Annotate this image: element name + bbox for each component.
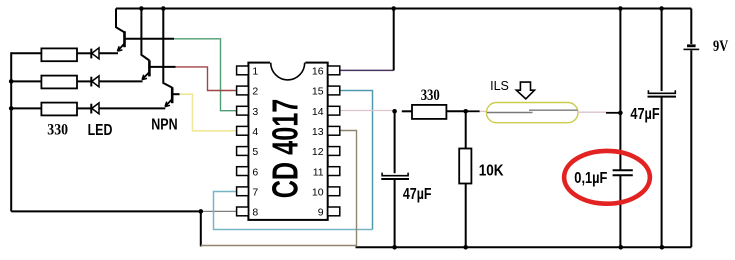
wire pale pink into capsule (480, 110, 487, 112)
node 0.1uF rail (618, 6, 623, 11)
svg-text:9V: 9V (713, 38, 729, 55)
node 10K ground (463, 245, 468, 250)
wire clock node to 330 (402, 110, 412, 112)
wire pin8 junction down to bottom rail (200, 211, 202, 246)
node C1 ground (392, 245, 397, 250)
resistor R4 330 (412, 105, 446, 119)
pin 1 box (237, 66, 249, 75)
wire green Q1 base to pin3 (174, 39, 237, 111)
svg-text:47µF: 47µF (403, 186, 432, 203)
pin 5 box (237, 147, 249, 156)
wire row1 mid (77, 52, 91, 54)
node pin8 junction (199, 209, 204, 214)
svg-text:330: 330 (47, 122, 68, 139)
svg-text:CD 4017: CD 4017 (265, 99, 306, 199)
capacitor C2 0.1uF (613, 170, 633, 175)
pin 10 box (328, 187, 340, 196)
pin 14 box (328, 106, 340, 115)
node ILS junction (463, 109, 468, 114)
wire 0.1uF vertical top (619, 9, 621, 171)
svg-text:4: 4 (252, 126, 258, 138)
ILS reed switch capsule (486, 103, 578, 123)
transistor Q3 (163, 9, 179, 107)
wire pin8 ground horizontal (11, 210, 201, 212)
node pin14 junction (392, 109, 397, 114)
wire ILS node down to 10K (465, 111, 467, 148)
wire purple pin16 VDD (340, 69, 394, 71)
wire row2 left (11, 80, 41, 82)
resistor R3 330 (41, 103, 77, 116)
pin 15 box (328, 86, 340, 95)
pin 13 box (328, 126, 340, 135)
wire row2 mid (77, 80, 91, 82)
wire row3 left (11, 107, 41, 109)
ILS down arrow (516, 82, 534, 99)
wire row1 right (99, 52, 118, 54)
svg-text:LED: LED (88, 122, 113, 139)
pin 12 box (328, 147, 340, 156)
wire capsule to cap line (606, 112, 620, 114)
svg-text:13: 13 (312, 126, 324, 138)
wire C1 to ground (394, 179, 396, 247)
wire pin8 to box (grey) (201, 210, 237, 212)
svg-text:12: 12 (312, 146, 324, 158)
node 0.1uF ground (619, 245, 624, 250)
wire 0.1uF to ground (619, 175, 621, 247)
svg-text:47µF: 47µF (630, 106, 659, 123)
svg-text:3: 3 (252, 106, 258, 118)
LED D3 (91, 103, 99, 114)
resistor R1 330 (41, 48, 77, 61)
wire 330 to ILS node (446, 110, 465, 112)
svg-text:8: 8 (252, 207, 258, 219)
svg-text:7: 7 (252, 187, 258, 199)
node C3 ground (660, 245, 665, 250)
svg-text:10K: 10K (479, 163, 505, 180)
pin 9 box (328, 207, 340, 216)
wire yellow Q3 base to pin4 (180, 94, 237, 131)
LED D2 (91, 76, 99, 87)
resistor R2 330 (41, 76, 77, 89)
svg-text:ILS: ILS (490, 79, 509, 93)
svg-text:5: 5 (252, 146, 258, 158)
wire brown pin13 enable to ground (201, 131, 357, 246)
LED D1 (91, 48, 99, 59)
wire VDD vertical (393, 9, 395, 71)
svg-text:0,1µF: 0,1µF (574, 170, 607, 187)
reed contact right (529, 109, 577, 111)
pin 4 box (237, 126, 249, 135)
capacitor C3 47uF (648, 90, 677, 96)
capacitor C1 47uF vertical wire (394, 111, 396, 173)
wire bottom ground rail (356, 246, 692, 248)
wire C3 to ground (661, 97, 663, 248)
pin 6 box (237, 167, 249, 176)
pin 3 box (237, 106, 249, 115)
transistor Q1 (116, 9, 174, 52)
node top rail Q2 (139, 6, 144, 11)
resistor R5 10K (459, 149, 471, 184)
svg-text:11: 11 (313, 166, 324, 178)
wire 47uF right vertical top (661, 9, 663, 92)
battery B1 9V (684, 9, 700, 248)
red highlight ellipse (564, 151, 650, 204)
wire node to ILS capsule (466, 110, 480, 112)
svg-text:6: 6 (252, 166, 258, 178)
svg-text:9: 9 (318, 207, 324, 219)
wire red Q2 base to pin2 (176, 67, 237, 91)
node C3 rail (659, 6, 664, 11)
node reed to vertical (618, 111, 623, 116)
wire blue pin15 reset (340, 91, 373, 230)
svg-text:330: 330 (421, 87, 440, 104)
pin 8 box (237, 207, 249, 216)
svg-text:15: 15 (312, 86, 324, 98)
capacitor C1 47uF (381, 173, 409, 179)
op-amp U1 CD4017 body (248, 61, 327, 220)
svg-text:10: 10 (312, 187, 324, 199)
wire row3 mid (77, 107, 91, 109)
svg-text:14: 14 (312, 106, 324, 118)
node row2 junction (9, 79, 14, 84)
wire row1 left (11, 52, 41, 54)
node top rail Q3 (161, 6, 166, 11)
wire 10K to ground (465, 184, 467, 248)
svg-text:2: 2 (252, 86, 258, 98)
wire row2 right (99, 80, 143, 82)
svg-text:16: 16 (312, 66, 324, 78)
svg-text:1: 1 (252, 66, 258, 78)
pin 2 box (237, 86, 249, 95)
node row3 junction (9, 106, 14, 111)
svg-text:NPN: NPN (151, 117, 177, 134)
wire left rail (resistors common) (10, 52, 12, 211)
node VDD rail (391, 6, 396, 11)
pin 11 box (328, 167, 340, 176)
pin 16 box (328, 66, 340, 75)
wire cyan pin7 to reset link (214, 192, 373, 230)
reed contact left (487, 112, 533, 114)
transistor Q2 (141, 9, 175, 80)
wire pink pin14 clock (340, 110, 394, 112)
pin 7 box (237, 187, 249, 196)
wire top +9V rail (116, 8, 691, 10)
wire row3 right (99, 107, 165, 109)
wire pale pink out of capsule (578, 111, 606, 113)
